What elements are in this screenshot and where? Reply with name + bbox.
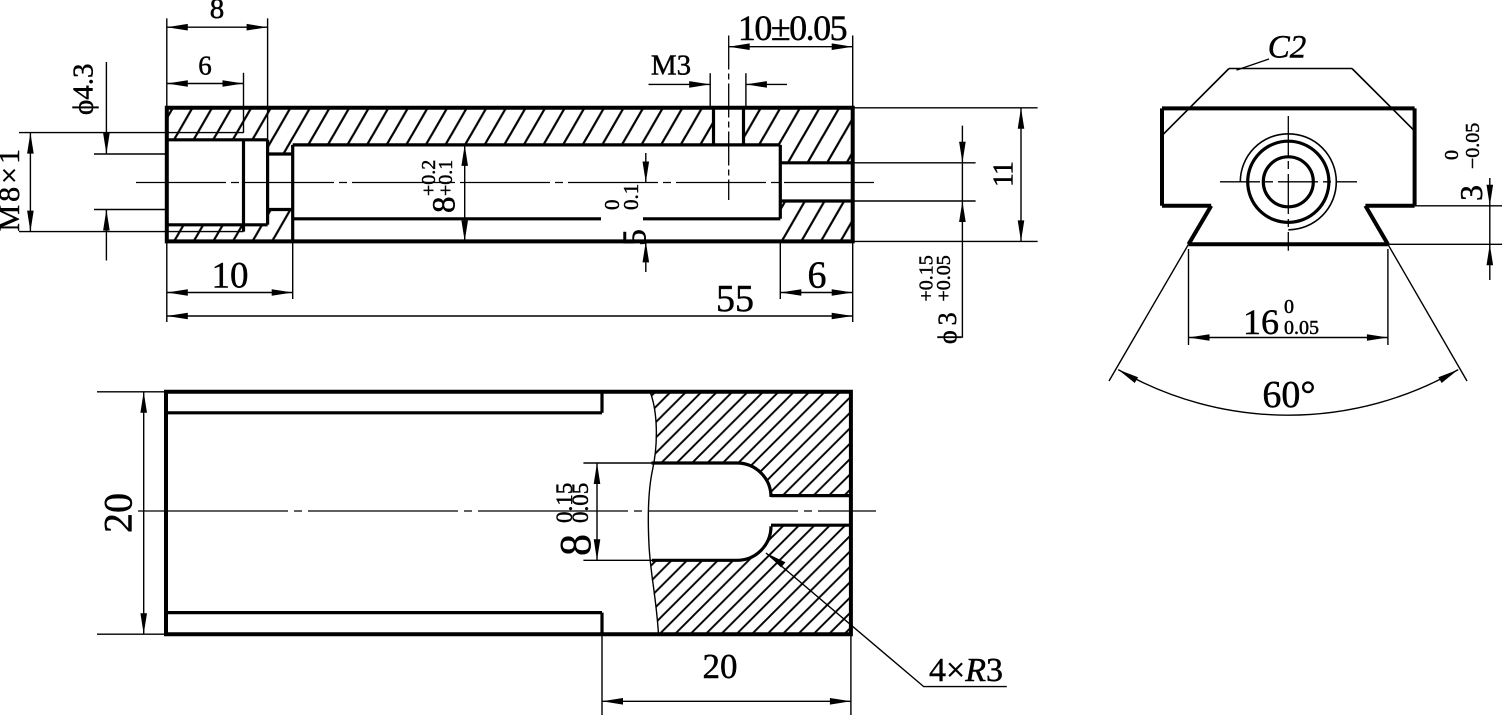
dim 16: dimension line xyxy=(1189,337,1388,339)
dim 20 left arrows xyxy=(140,392,147,413)
phi4.3 hole bottom line xyxy=(268,208,293,211)
M8 thread major top thin line xyxy=(167,132,244,134)
dim 8 top: extension lines xyxy=(166,18,168,107)
label 8 +0.2/+0.1 rotated xyxy=(418,160,463,213)
slot bottom line xyxy=(652,559,737,562)
60 deg flank extension left xyxy=(1109,244,1189,381)
C2 leader xyxy=(1237,59,1270,70)
thread minor thick circle xyxy=(1248,141,1329,222)
dim 3: extension lines xyxy=(1415,205,1502,207)
svg-text:C2: C2 xyxy=(1268,30,1307,66)
slot end radius R3 top xyxy=(737,463,771,497)
label 20 left rotated xyxy=(96,493,141,533)
dim 55: right extension line xyxy=(852,241,854,322)
M3 tapped hole minor right xyxy=(742,108,745,145)
svg-text:0: 0 xyxy=(1441,150,1463,160)
M3 major extension left above part xyxy=(709,73,711,108)
plan outline rectangle xyxy=(166,392,851,634)
svg-text:5: 5 xyxy=(617,229,654,246)
dim 20 bottom arrows xyxy=(602,698,623,705)
label M8x1 rotated xyxy=(0,146,26,232)
svg-text:0.1: 0.1 xyxy=(619,184,643,210)
dim 10 bottom: dimension line xyxy=(167,292,293,294)
M8 thread major bottom thin line xyxy=(167,231,244,233)
M3 hole centerline xyxy=(728,36,730,201)
dim 5 arrows xyxy=(643,162,650,183)
60 deg arc arrows xyxy=(1118,370,1138,383)
dim 3: dimension line xyxy=(1489,178,1491,280)
slot end radius R3 bottom xyxy=(737,526,771,560)
svg-text:−0.05: −0.05 xyxy=(1462,123,1484,169)
svg-text:8: 8 xyxy=(210,0,225,25)
60 deg dimension arc xyxy=(1118,370,1458,416)
phi3 hole top line xyxy=(780,161,852,164)
hatch bottom wall left xyxy=(167,210,293,242)
shoulder left xyxy=(1162,204,1211,208)
thread major thin arc 3/4 xyxy=(1240,134,1336,230)
svg-text:10: 10 xyxy=(212,256,249,297)
label 8 +0.15/+0.05 rotated xyxy=(551,483,600,556)
shoulder step vertical top xyxy=(600,392,603,413)
dim 20 bottom: extension lines xyxy=(601,634,603,715)
dim 6 bottom arrows xyxy=(780,289,801,296)
chamfer slant left xyxy=(1162,69,1229,136)
M3 major extension right above part xyxy=(745,73,747,108)
drill end line at depth 8 xyxy=(266,140,269,225)
hatch top wall right of M3 hole xyxy=(744,108,853,163)
dim 5: dimension line segments xyxy=(645,153,647,183)
main bore left face xyxy=(291,145,294,242)
dim M3 arrows xyxy=(689,81,710,88)
block left edge xyxy=(1160,108,1164,205)
dim 8 slot: extension lines xyxy=(583,462,651,464)
dim 16 arrows xyxy=(1189,334,1210,341)
arrows of section view xyxy=(27,24,1024,319)
block right edge xyxy=(1413,108,1417,205)
dim 8+0.2+0.1 arrows xyxy=(461,145,468,166)
channel top line xyxy=(771,494,851,497)
slot top line xyxy=(652,461,738,464)
svg-text:20: 20 xyxy=(703,647,738,686)
label phi3 +0.15/+0.05 rotated xyxy=(916,255,963,344)
dim 8 slot: dimension line xyxy=(596,463,598,560)
dim M8x1: extension lines xyxy=(19,132,167,134)
svg-text:60°: 60° xyxy=(1262,374,1315,416)
section main centerline xyxy=(136,182,879,184)
dim 10+-0.05 arrows xyxy=(729,43,750,50)
dim 10 bottom arrows xyxy=(167,289,188,296)
label 11 rotated xyxy=(988,162,1019,187)
bottom edge xyxy=(1189,242,1388,246)
chamfer slant right xyxy=(1352,69,1415,132)
main bore top line xyxy=(293,143,781,146)
plan centerline xyxy=(138,510,876,512)
phi4.3 hole top line xyxy=(268,152,293,155)
dim 6 bottom right: extension line xyxy=(779,241,781,299)
dim 8 slot arrows xyxy=(594,463,601,484)
horizontal centerline xyxy=(1220,181,1357,183)
hatch upper region of broken-out section xyxy=(650,392,851,497)
svg-text:10±0.05: 10±0.05 xyxy=(738,8,847,48)
dovetail shoulder line bottom xyxy=(166,611,602,614)
phi3 hole bottom line xyxy=(780,199,852,202)
dim 20 left: extension lines xyxy=(97,391,166,393)
svg-text:8: 8 xyxy=(551,534,600,556)
dim M8x1 arrows xyxy=(27,133,34,154)
svg-text:0.05: 0.05 xyxy=(1284,317,1319,339)
dovetail flank left xyxy=(1189,206,1212,245)
svg-text:M8×1: M8×1 xyxy=(0,146,26,232)
svg-text:+0.05: +0.05 xyxy=(933,255,955,301)
dim 6 bottom right: dimension line xyxy=(780,292,852,294)
label 5 0/-0.1 rotated xyxy=(600,184,653,246)
dim phi3: dimension line xyxy=(961,126,963,338)
dim 10 bottom: extension lines xyxy=(166,241,168,322)
dim 6 top: extension line right xyxy=(243,73,245,133)
hatch top wall left of M3 hole xyxy=(167,108,714,154)
thread end line at depth 6 xyxy=(242,140,245,232)
dim 10+-0.05: dimension line xyxy=(729,46,853,48)
dim M3: dimension lines with outside arrows xyxy=(649,83,711,85)
dim phi4.3 arrows xyxy=(103,133,110,154)
dim 11: extension lines xyxy=(853,107,1038,109)
svg-text:0.05: 0.05 xyxy=(568,483,593,523)
dim 20 bottom: dimension line xyxy=(602,700,851,702)
svg-text:M3: M3 xyxy=(651,49,691,81)
leader 4xR3 xyxy=(766,553,1007,687)
bore end step face xyxy=(779,145,782,219)
svg-text:+0.1: +0.1 xyxy=(435,160,457,196)
dovetail flank right xyxy=(1365,206,1388,245)
dim 6 arrows xyxy=(167,80,188,87)
dim 20 left: dimension line xyxy=(143,392,145,634)
dim 16: extension lines xyxy=(1188,249,1190,345)
part outline rectangle xyxy=(167,108,853,242)
hatch lower region of broken-out section xyxy=(651,525,851,634)
svg-text:ϕ3: ϕ3 xyxy=(933,307,962,344)
channel bottom line xyxy=(771,524,851,527)
M8 thread minor (drill) top line xyxy=(167,138,268,141)
dim phi3 arrows xyxy=(959,142,966,163)
svg-text:16: 16 xyxy=(1243,302,1279,342)
60 deg flank extension right xyxy=(1388,244,1467,381)
leader 4xR3 arrow xyxy=(766,553,785,568)
dim 11: dimension line xyxy=(1020,108,1022,242)
hatch bottom wall right xyxy=(780,201,852,241)
chamfer plateau top line xyxy=(1229,68,1352,70)
dim 8 arrows xyxy=(167,24,188,31)
dim 8 top: dimension line xyxy=(167,26,268,28)
svg-text:8: 8 xyxy=(427,197,463,214)
block top edge xyxy=(1162,106,1415,110)
svg-text:ϕ4.3: ϕ4.3 xyxy=(68,63,100,115)
dim 55 arrows xyxy=(167,313,188,320)
svg-text:0: 0 xyxy=(1284,296,1294,318)
svg-text:4×R3: 4×R3 xyxy=(929,652,1003,689)
vertical centerline xyxy=(1287,116,1289,251)
dovetail shoulder line top xyxy=(166,411,602,414)
dim phi4.3: dimension line segments xyxy=(105,62,107,154)
dim phi4.3: extension lines xyxy=(94,153,167,155)
shoulder right xyxy=(1365,204,1414,208)
dim 8+0.2+0.1: dimension line xyxy=(464,145,466,242)
svg-text:6: 6 xyxy=(808,255,827,297)
svg-text:6: 6 xyxy=(198,50,212,80)
label 3 0/-0.05 rotated xyxy=(1441,123,1489,201)
M8 thread minor (drill) bottom line xyxy=(167,223,268,226)
slot bottom line in section (gap at label) xyxy=(293,217,601,220)
shoulder step vertical bottom xyxy=(600,613,603,635)
M3 tapped hole minor left xyxy=(712,108,715,145)
dim M8x1: dimension line xyxy=(29,133,31,232)
dim 55: dimension line xyxy=(167,315,853,317)
phi4.3 hole circle xyxy=(1263,157,1313,207)
dim 11 arrows xyxy=(1018,108,1025,129)
svg-text:20: 20 xyxy=(96,493,141,533)
wavy break line xyxy=(648,392,658,634)
dim 3 arrows xyxy=(1487,185,1494,206)
svg-text:55: 55 xyxy=(716,278,754,320)
dim 6 top: dimension line xyxy=(167,83,244,85)
label phi4.3 rotated xyxy=(68,63,100,115)
svg-text:11: 11 xyxy=(988,162,1019,187)
svg-text:3: 3 xyxy=(1453,185,1489,201)
dim 10+-0.05: right extension above part xyxy=(852,36,854,108)
